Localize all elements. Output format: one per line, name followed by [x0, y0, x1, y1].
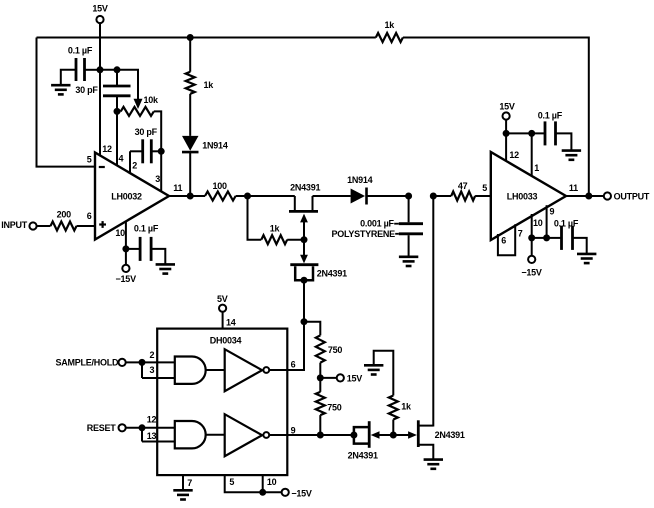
- pin label 9: [291, 426, 296, 436]
- node pins 5-10 tie: [259, 489, 266, 496]
- wire to Q4 gate: [393, 434, 408, 436]
- wire pin 10 to -15V: [263, 475, 282, 492]
- svg-text:POLYSTYRENE: POLYSTYRENE: [331, 229, 395, 239]
- svg-text:0.1 µF: 0.1 µF: [538, 111, 563, 121]
- SAMPLE/HOLD terminal: [56, 358, 126, 368]
- svg-text:1: 1: [534, 163, 539, 173]
- wire pin 10 to -15V: [125, 222, 127, 265]
- node divider branch: [301, 318, 308, 325]
- resistor 1k gate Q1: [248, 196, 305, 244]
- svg-text:5: 5: [87, 155, 92, 165]
- wire branch to 750 divider: [304, 322, 320, 336]
- svg-text:RESET: RESET: [87, 423, 117, 433]
- pin label 6: [291, 359, 296, 369]
- wire 15V to pin 12: [505, 119, 507, 160]
- resistor 100: [205, 181, 236, 200]
- svg-text:15V: 15V: [92, 4, 108, 14]
- capacitor 0.1 uF bypass (LH0033 V-): [547, 218, 587, 253]
- node junction rail / clamp branch: [187, 34, 194, 41]
- pot wiper arrow: [134, 99, 143, 109]
- wire hold node to Q4 drain: [432, 196, 434, 427]
- wire V+ node to cap: [506, 132, 544, 134]
- resistor 750 upper: [316, 335, 343, 362]
- svg-text:100: 100: [212, 181, 227, 191]
- ground (1k hook): [364, 365, 383, 374]
- potentiometer 10k offset adjust: [117, 95, 161, 151]
- node V+ bypass junction (LH0033): [503, 130, 510, 137]
- wire LH0032 output: [169, 195, 205, 197]
- 15V supply terminal (top): [92, 4, 108, 24]
- node Q2 source/drain tie: [301, 277, 308, 284]
- resistor 750 lower: [316, 392, 342, 415]
- svg-text:14: 14: [226, 317, 236, 327]
- svg-text:OUTPUT: OUTPUT: [614, 192, 650, 202]
- svg-text:DH0034: DH0034: [210, 335, 242, 345]
- svg-text:10: 10: [533, 218, 543, 228]
- inverter buffer A2: [225, 414, 269, 456]
- pin labels LH0032: [87, 144, 183, 238]
- wire pin 10 to -15V: [531, 214, 533, 256]
- node clamp diode junction: [187, 193, 194, 200]
- wire 15V to LH0032 pin 12: [99, 23, 101, 156]
- svg-text:LH0032: LH0032: [111, 191, 142, 201]
- svg-text:0.1 µF: 0.1 µF: [134, 224, 159, 234]
- svg-text:200: 200: [57, 209, 72, 219]
- svg-text:0.001 µF: 0.001 µF: [360, 219, 394, 229]
- svg-text:15V: 15V: [347, 374, 363, 384]
- svg-text:2N4391: 2N4391: [290, 183, 320, 193]
- svg-text:6: 6: [87, 211, 92, 221]
- wire pin 5 to -15V: [225, 475, 263, 492]
- node Q3 tie: [350, 432, 357, 439]
- -15V terminal (LH0032): [116, 265, 137, 284]
- op-amp U1 LH0032: [95, 153, 169, 240]
- svg-text:INPUT: INPUT: [1, 220, 28, 230]
- svg-text:10k: 10k: [144, 95, 160, 105]
- svg-text:11: 11: [569, 183, 578, 193]
- node hold cap junction: [405, 193, 412, 200]
- node pin 10 bypass: [122, 245, 129, 252]
- AND gate A1: [175, 357, 206, 384]
- svg-text:3: 3: [150, 365, 155, 375]
- svg-text:7: 7: [518, 229, 523, 239]
- wire 750 junction: [319, 363, 321, 392]
- ground (LH0033 V- bypass): [577, 254, 596, 263]
- transistor Q3 2N4391 chopper: [348, 421, 378, 460]
- wire to JFET Q1 source: [236, 195, 295, 197]
- wire pins 6-7 tie: [498, 224, 515, 255]
- wire feedback rail top (output to pin 5 loop): [37, 38, 589, 197]
- svg-text:1N914: 1N914: [202, 141, 228, 151]
- svg-text:LH0033: LH0033: [507, 192, 538, 202]
- svg-text:SAMPLE/HOLD: SAMPLE/HOLD: [56, 358, 120, 368]
- svg-text:2N4391: 2N4391: [348, 451, 378, 461]
- svg-text:12: 12: [102, 144, 112, 154]
- svg-text:2N4391: 2N4391: [435, 430, 465, 440]
- svg-text:13: 13: [147, 431, 157, 441]
- node Q1/Q2 gate junction: [301, 236, 308, 243]
- pin labels 2 3: [150, 350, 155, 375]
- svg-text:0.1 µF: 0.1 µF: [554, 218, 579, 228]
- 15V terminal (divider): [320, 374, 362, 384]
- AND gate A2: [175, 421, 206, 448]
- svg-text:15V: 15V: [499, 102, 515, 112]
- svg-text:750: 750: [327, 403, 342, 413]
- wire reset to pins 12,13: [126, 428, 175, 442]
- node V+ bypass junction: [97, 66, 121, 73]
- node pin 9 bypass: [543, 234, 550, 241]
- svg-text:−15V: −15V: [291, 488, 312, 498]
- wire 5V pin 14: [223, 312, 236, 329]
- wire pin 9 run: [269, 434, 354, 436]
- svg-text:10: 10: [115, 228, 125, 238]
- 5V terminal: [217, 294, 228, 312]
- node divider mid: [317, 374, 324, 381]
- wire pin 7 ground: [183, 475, 192, 490]
- svg-text:1k: 1k: [270, 224, 281, 234]
- inverter buffer A1: [225, 349, 269, 391]
- resistor 1k feedback (top): [376, 20, 403, 42]
- svg-text:2N4391: 2N4391: [317, 268, 347, 278]
- capacitor 30 pF (comp pins 2-3): [130, 127, 161, 173]
- node pin 10: [528, 234, 535, 241]
- capacitor 0.1 uF bypass (LH0032 V+): [61, 46, 100, 85]
- node pins 2-3 tie: [139, 359, 146, 366]
- ground (V+ bypass): [51, 85, 70, 94]
- diode 1N914 series: [313, 175, 409, 204]
- IC U3 DH0034 outline: [157, 329, 287, 476]
- resistor 1k gate pulloff: [374, 351, 412, 435]
- svg-text:2: 2: [132, 161, 137, 171]
- svg-text:−15V: −15V: [521, 267, 542, 277]
- transistor Q2 2N4391 (gate drive isolation): [290, 240, 347, 281]
- resistor 47: [433, 181, 491, 200]
- svg-text:10: 10: [267, 477, 277, 487]
- svg-text:12: 12: [509, 150, 519, 160]
- wire Q2 to DH0034 pin 6: [269, 280, 304, 370]
- ground (hold cap): [399, 257, 418, 266]
- svg-text:1k: 1k: [401, 402, 412, 412]
- svg-text:47: 47: [458, 181, 468, 191]
- svg-text:5: 5: [229, 477, 234, 487]
- wire pin 9: [546, 205, 548, 238]
- svg-text:1k: 1k: [204, 80, 215, 90]
- ground (LH0032 V- bypass): [156, 264, 175, 273]
- svg-text:2: 2: [150, 350, 155, 360]
- svg-text:750: 750: [328, 345, 343, 355]
- diode 1N914 clamp: [182, 136, 228, 196]
- op-amp U2 LH0033: [491, 152, 566, 240]
- resistor 1k clamp: [186, 38, 215, 136]
- RESET terminal: [87, 423, 126, 433]
- capacitor 0.1 uF bypass (LH0032 V-): [126, 224, 165, 264]
- transistor Q1 2N4391 sample switch: [289, 183, 320, 240]
- wire sample/hold to pins 2,3: [126, 362, 175, 378]
- wire pins 10-9: [532, 237, 547, 239]
- wire pin 1: [531, 133, 533, 175]
- pin labels 12 13: [147, 415, 157, 442]
- wire 750 to pin 9 line: [319, 415, 321, 435]
- wire V+ node to pot wiper: [100, 70, 138, 99]
- INPUT terminal: [1, 220, 36, 230]
- svg-text:1N914: 1N914: [347, 175, 373, 185]
- capacitor 0.001 uF polystyrene hold: [331, 196, 423, 256]
- node pin 1: [528, 130, 535, 137]
- ground (Q4 source): [424, 460, 443, 469]
- svg-text:9: 9: [550, 207, 555, 217]
- -15V terminal (DH0034): [282, 488, 312, 498]
- arrow Q3 gate: [371, 431, 380, 439]
- ground (pin 7): [173, 490, 192, 499]
- capacitor 30 pF (offset): [75, 70, 130, 166]
- svg-text:−15V: −15V: [116, 274, 137, 284]
- svg-text:1k: 1k: [385, 20, 396, 30]
- node output feedback: [585, 193, 592, 200]
- svg-text:0.1 µF: 0.1 µF: [68, 46, 93, 56]
- wire to pin 6: [77, 225, 96, 227]
- svg-text:11: 11: [173, 183, 182, 193]
- svg-text:30 pF: 30 pF: [75, 85, 98, 95]
- node gate resistor junction: [390, 432, 397, 439]
- svg-text:3: 3: [155, 174, 160, 184]
- svg-text:6: 6: [291, 359, 296, 369]
- svg-text:5V: 5V: [217, 294, 228, 304]
- arrow Q4 gate: [408, 431, 417, 439]
- OUTPUT terminal: [604, 192, 650, 202]
- wire output: [566, 195, 604, 197]
- -15V terminal (LH0033): [521, 256, 542, 278]
- svg-text:30 pF: 30 pF: [135, 127, 158, 137]
- 15V terminal (LH0033): [499, 102, 515, 120]
- svg-text:7: 7: [187, 478, 192, 488]
- node pot left / pin 4: [114, 108, 121, 115]
- svg-text:5: 5: [482, 183, 487, 193]
- ground (LH0033 V+ bypass): [562, 151, 581, 160]
- node 750 bottom: [317, 432, 324, 439]
- svg-text:12: 12: [147, 415, 157, 425]
- wire gate to buffer A2: [206, 434, 225, 436]
- node pin 3 branch: [158, 148, 165, 192]
- pin labels LH0033: [482, 150, 578, 246]
- wire Q3 gate to node: [379, 434, 394, 436]
- svg-text:6: 6: [501, 236, 506, 246]
- transistor Q4 2N4391 reset switch: [418, 420, 465, 459]
- node pins 12-13 tie: [139, 424, 146, 431]
- wire input: [36, 225, 50, 227]
- node gate resistor tap: [244, 193, 251, 200]
- wire gate to buffer A1: [206, 369, 225, 371]
- node drain line junction: [430, 193, 437, 200]
- capacitor 0.1 uF bypass (LH0033 V+): [538, 111, 572, 150]
- svg-text:4: 4: [119, 154, 124, 164]
- resistor 200 input: [51, 209, 77, 230]
